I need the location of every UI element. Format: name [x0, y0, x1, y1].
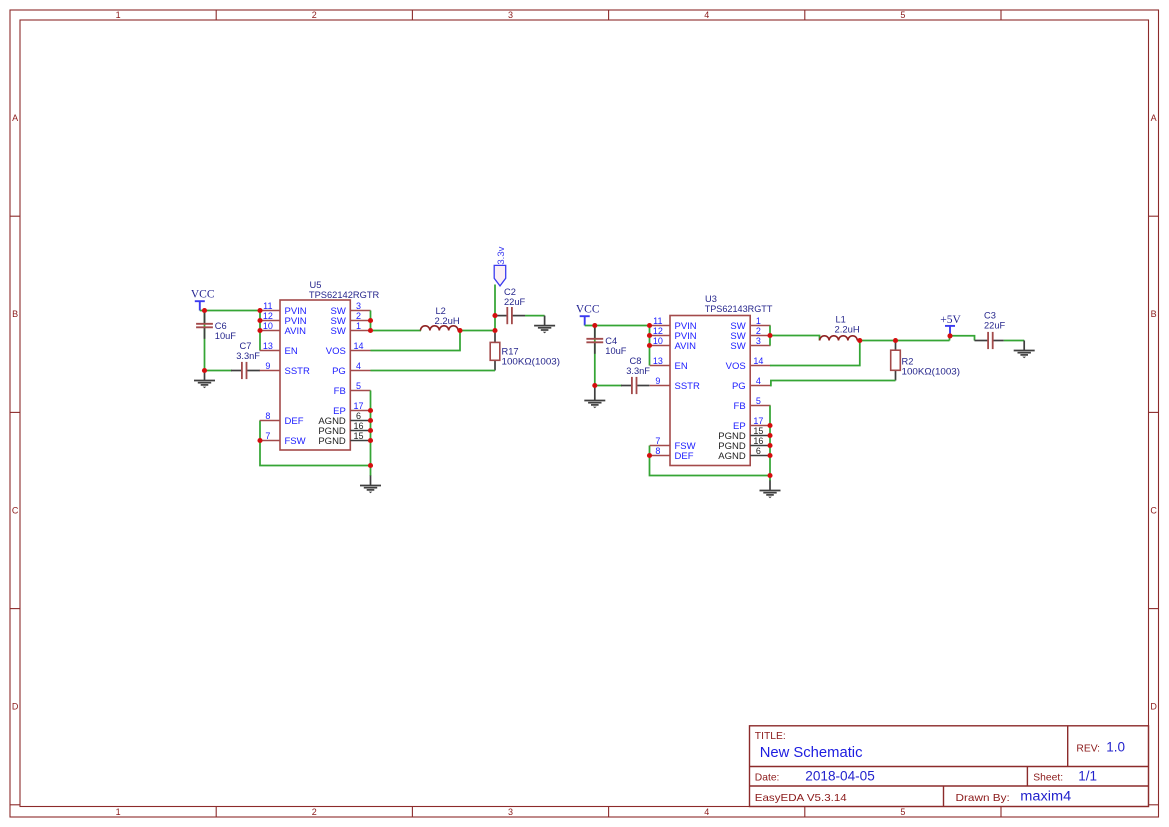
wire FSW-DEF to bottom node right [650, 446, 771, 476]
svg-text:C4: C4 [605, 336, 617, 346]
svg-text:7: 7 [265, 431, 270, 441]
pin 15 PGND [318, 431, 370, 447]
border row tick right C [1149, 608, 1159, 610]
border column tick bottom 3 [608, 807, 610, 818]
capacitor C6 [196, 311, 213, 339]
svg-text:VOS: VOS [726, 361, 746, 372]
svg-text:2: 2 [312, 10, 317, 20]
svg-text:17: 17 [753, 416, 763, 426]
svg-text:Sheet:: Sheet: [1033, 773, 1063, 784]
svg-text:13: 13 [653, 356, 663, 366]
border row tick left B [10, 411, 20, 413]
svg-text:10uF: 10uF [605, 346, 627, 356]
svg-text:PG: PG [732, 381, 746, 392]
svg-text:3.3v: 3.3v [496, 246, 507, 264]
svg-text:AVIN: AVIN [285, 326, 307, 337]
junction ground node right [592, 383, 597, 388]
svg-text:15: 15 [753, 426, 763, 436]
junction pin 10 [257, 328, 262, 333]
wire VCC to pin11 [200, 310, 260, 312]
svg-text:FSW: FSW [285, 436, 306, 447]
svg-text:22uF: 22uF [984, 321, 1006, 331]
resistor R2 [891, 341, 901, 381]
svg-text:C: C [1150, 505, 1157, 515]
junction ground node left [202, 368, 207, 373]
svg-text:EasyEDA V5.3.14: EasyEDA V5.3.14 [755, 793, 847, 804]
svg-text:SSTR: SSTR [285, 366, 310, 377]
svg-text:10uF: 10uF [215, 331, 237, 341]
junction bottom node U5 [368, 463, 373, 468]
svg-text:VCC: VCC [576, 304, 600, 316]
svg-text:C3: C3 [984, 311, 996, 321]
junction pin 8 DEF right [647, 453, 652, 458]
border column tick top 3 [608, 10, 610, 20]
pin 17 EP [733, 416, 770, 432]
junction pin 15 PGND right [767, 433, 772, 438]
junction pin 11 right [647, 323, 652, 328]
junction pin 7 FSW [257, 438, 262, 443]
junction pin 1 SW [368, 328, 373, 333]
svg-text:C7: C7 [240, 341, 252, 351]
op-amp U5 TPS62142RGTR [280, 300, 350, 450]
svg-text:4: 4 [704, 807, 709, 817]
junction L2 output [457, 328, 462, 333]
svg-text:VCC: VCC [191, 289, 215, 301]
pin 17 EP [333, 401, 370, 417]
svg-text:100KΩ(1003): 100KΩ(1003) [902, 367, 961, 377]
border column tick bottom 5 [1000, 807, 1002, 818]
svg-text:SSTR: SSTR [675, 381, 700, 392]
wire VOS feedback [371, 331, 461, 351]
svg-text:3: 3 [756, 336, 761, 346]
svg-text:6: 6 [356, 411, 361, 421]
svg-text:New Schematic: New Schematic [760, 744, 863, 761]
pin 15 PGND [718, 426, 770, 442]
inductor L2 [421, 326, 459, 331]
svg-text:4: 4 [704, 10, 709, 20]
svg-text:C6: C6 [215, 321, 227, 331]
border column tick bottom 1 [215, 807, 217, 818]
svg-text:2: 2 [356, 311, 361, 321]
op-amp U3 TPS62143RGTT [670, 316, 750, 466]
junction pin 6 AGND right [767, 453, 772, 458]
pin 1 SW [330, 321, 370, 337]
junction pin 16 PGND right [767, 443, 772, 448]
pin 16 PGND [718, 436, 770, 452]
border column tick top 4 [804, 10, 806, 20]
wire SW to L1 with jog [770, 336, 820, 341]
junction pin 2 SW right [767, 333, 772, 338]
svg-text:13: 13 [263, 341, 273, 351]
pin 10 AVIN [650, 336, 696, 352]
svg-text:1: 1 [116, 807, 121, 817]
svg-text:11: 11 [263, 301, 272, 311]
svg-text:D: D [1150, 702, 1157, 712]
wire PG to R17 bottom [371, 370, 496, 372]
junction pin 2 SW [368, 318, 373, 323]
svg-text:9: 9 [655, 376, 660, 386]
pin 2 SW [730, 326, 770, 342]
svg-text:C: C [12, 505, 19, 515]
svg-text:TPS62142RGTR: TPS62142RGTR [309, 290, 380, 300]
junction pin 16 PGND [368, 428, 373, 433]
svg-text:4: 4 [356, 361, 361, 371]
ground under U3 [760, 481, 781, 499]
svg-text:10: 10 [653, 336, 663, 346]
svg-text:DEF: DEF [675, 451, 694, 462]
svg-text:TITLE:: TITLE: [755, 731, 786, 742]
pin 14 VOS [326, 341, 371, 357]
svg-text:17: 17 [353, 401, 363, 411]
svg-text:SW: SW [330, 326, 345, 337]
pin 4 PG [332, 361, 371, 377]
junction +5V node [947, 333, 952, 338]
pin 6 AGND [318, 411, 370, 427]
wire DEF-FSW to bottom node [260, 421, 371, 466]
svg-text:7: 7 [655, 436, 660, 446]
pin 10 AVIN [260, 321, 306, 337]
border column tick top 1 [215, 10, 217, 20]
svg-text:14: 14 [353, 341, 363, 351]
border row tick left C [10, 608, 20, 610]
pin 7 FSW [260, 431, 306, 447]
svg-text:5: 5 [756, 396, 761, 406]
svg-text:10: 10 [263, 321, 273, 331]
svg-text:12: 12 [653, 326, 663, 336]
wire SW pins chain right [769, 326, 771, 346]
resistor R17 [490, 333, 500, 371]
svg-text:3.3nF: 3.3nF [626, 366, 650, 376]
wire ground node to C8 [595, 385, 622, 387]
wire L1 output rail [860, 340, 950, 342]
svg-text:B: B [1151, 309, 1157, 319]
ground right of C2 [534, 316, 555, 334]
svg-text:C8: C8 [630, 356, 642, 366]
junction pin 15 PGND [368, 438, 373, 443]
pin 5 FB [334, 381, 371, 397]
net flag +5V [945, 326, 955, 336]
wire VCC down to C4/ground node [594, 326, 596, 386]
svg-text:EN: EN [675, 361, 688, 372]
net flag VCC (left) [195, 301, 205, 310]
svg-text:5: 5 [900, 10, 905, 20]
wire L2 output to R17 node [460, 330, 495, 332]
wire PG to R2 bottom right [770, 381, 896, 386]
junction pin 11 [257, 308, 262, 313]
svg-text:16: 16 [353, 421, 363, 431]
svg-text:FB: FB [734, 401, 746, 412]
svg-text:VOS: VOS [326, 346, 346, 357]
pin 3 SW [730, 336, 770, 352]
svg-text:C2: C2 [504, 287, 516, 297]
svg-text:2: 2 [312, 807, 317, 817]
svg-text:R2: R2 [902, 357, 914, 367]
ground under C4 [584, 386, 605, 408]
pin 7 FSW [650, 436, 696, 452]
svg-text:U3: U3 [705, 294, 717, 304]
junction C2 node [492, 313, 497, 318]
pin 3 SW [330, 301, 370, 317]
svg-text:5: 5 [900, 807, 905, 817]
svg-text:L2: L2 [436, 306, 446, 316]
pin 11 PVIN [650, 316, 697, 332]
svg-text:A: A [1151, 113, 1157, 123]
svg-text:8: 8 [655, 446, 660, 456]
pin 9 SSTR [260, 361, 310, 377]
pin 4 PG [732, 376, 771, 392]
title block [750, 726, 1149, 807]
wire ground node to C7 [205, 370, 233, 372]
svg-text:REV:: REV: [1076, 744, 1100, 755]
pin 13 EN [260, 341, 298, 357]
svg-text:DEF: DEF [285, 416, 304, 427]
svg-text:11: 11 [653, 316, 662, 326]
border column tick bottom 2 [411, 807, 413, 818]
capacitor C3 [975, 332, 1004, 349]
inductor L1 [820, 336, 858, 341]
svg-text:Date:: Date: [755, 773, 780, 784]
border column tick top 2 [411, 10, 413, 20]
junction pin 12 right [647, 333, 652, 338]
svg-text:16: 16 [753, 436, 763, 446]
ground under C6 [194, 371, 215, 389]
svg-text:U5: U5 [310, 280, 322, 290]
border row tick left D [10, 804, 20, 806]
svg-text:B: B [12, 309, 18, 319]
pin 16 PGND [318, 421, 370, 437]
wire VOS feedback right [770, 341, 860, 366]
svg-text:AVIN: AVIN [675, 341, 697, 352]
svg-text:15: 15 [353, 431, 363, 441]
svg-text:PGND: PGND [318, 436, 346, 447]
ground right of C3 [1014, 341, 1035, 359]
svg-text:D: D [12, 702, 19, 712]
junction R17 top node [492, 328, 497, 333]
junction pin 17 EP right [767, 423, 772, 428]
pin 8 DEF [650, 446, 694, 462]
svg-text:14: 14 [753, 356, 763, 366]
svg-text:Drawn By:: Drawn By: [956, 793, 1010, 804]
capacitor C8 [621, 377, 650, 394]
border row tick right A [1149, 215, 1159, 217]
wire to ground U5 [370, 466, 372, 477]
capacitor C2 [497, 307, 525, 324]
border row tick right B [1149, 411, 1159, 413]
svg-text:PG: PG [332, 366, 346, 377]
wire to ground U3 [769, 476, 771, 482]
svg-text:12: 12 [263, 311, 273, 321]
svg-text:SW: SW [730, 341, 745, 352]
svg-text:2: 2 [756, 326, 761, 336]
pin 12 PVIN [260, 311, 307, 327]
wire pin11-pin12-pin10-EN chain [259, 311, 261, 351]
svg-text:R17: R17 [502, 346, 519, 356]
wire FB-EP-GND chain [370, 391, 372, 466]
svg-text:EN: EN [285, 346, 298, 357]
svg-text:3.3nF: 3.3nF [236, 351, 260, 361]
svg-text:FB: FB [334, 386, 346, 397]
svg-text:1/1: 1/1 [1078, 769, 1097, 784]
svg-text:1: 1 [756, 316, 761, 326]
svg-text:L1: L1 [836, 314, 846, 324]
capacitor C7 [231, 362, 260, 379]
wire VCC down to C6/ground node [204, 311, 206, 371]
svg-text:2.2uH: 2.2uH [435, 316, 460, 326]
border row tick right D [1149, 804, 1159, 806]
svg-text:6: 6 [756, 446, 761, 456]
junction pin 12 [257, 318, 262, 323]
pin 12 PVIN [650, 326, 697, 342]
svg-text:4: 4 [756, 376, 761, 386]
pin 2 SW [330, 311, 370, 327]
pin 8 DEF [260, 411, 304, 427]
wire C2 to ground [525, 315, 545, 317]
wire C3 to ground [1004, 340, 1024, 342]
wire 3.3v vertical [494, 285, 496, 331]
junction VCC node right [592, 323, 597, 328]
net flag VCC (right) [580, 316, 590, 325]
pin 5 FB [734, 396, 771, 412]
junction pin 6 AGND [368, 418, 373, 423]
svg-text:TPS62143RGTT: TPS62143RGTT [705, 304, 773, 314]
svg-text:5: 5 [356, 381, 361, 391]
svg-text:1: 1 [116, 10, 121, 20]
junction L1 output [857, 338, 862, 343]
svg-text:A: A [12, 113, 18, 123]
svg-text:3: 3 [508, 10, 513, 20]
junction bottom node U3 [767, 473, 772, 478]
capacitor C4 [586, 326, 603, 354]
pin 13 EN [650, 356, 688, 372]
svg-text:8: 8 [265, 411, 270, 421]
wire SW pins chain [370, 311, 372, 331]
svg-text:1.0: 1.0 [1106, 740, 1125, 755]
pin 6 AGND [718, 446, 770, 462]
svg-text:maxim4: maxim4 [1020, 789, 1071, 804]
wire pin chain right [649, 326, 651, 366]
ground under U5 [360, 476, 381, 494]
wire FB-EP-GND chain right [769, 406, 771, 476]
svg-text:9: 9 [265, 361, 270, 371]
svg-text:2.2uH: 2.2uH [835, 324, 860, 334]
wire +5V jog [950, 336, 975, 341]
pin 9 SSTR [650, 376, 700, 392]
svg-text:22uF: 22uF [504, 297, 526, 307]
pin 14 VOS [726, 356, 771, 372]
junction R2 top [893, 338, 898, 343]
pin 11 PVIN [260, 301, 307, 317]
svg-text:3: 3 [356, 301, 361, 311]
svg-text:+5V: +5V [940, 314, 961, 326]
svg-text:3: 3 [508, 807, 513, 817]
svg-text:2018-04-05: 2018-04-05 [805, 769, 875, 784]
wire SW to L2 [371, 330, 422, 332]
border column tick top 5 [1000, 10, 1002, 20]
svg-text:AGND: AGND [718, 451, 746, 462]
junction VCC node [202, 308, 207, 313]
junction pin 17 EP [368, 408, 373, 413]
pin 1 SW [730, 316, 770, 332]
border column tick bottom 4 [804, 807, 806, 818]
wire VCC to pin11 right [585, 325, 650, 327]
junction pin 10 right [647, 343, 652, 348]
svg-text:1: 1 [356, 321, 361, 331]
svg-text:100KΩ(1003): 100KΩ(1003) [502, 356, 561, 366]
border row tick left A [10, 215, 20, 217]
net flag 3.3v [494, 265, 506, 286]
